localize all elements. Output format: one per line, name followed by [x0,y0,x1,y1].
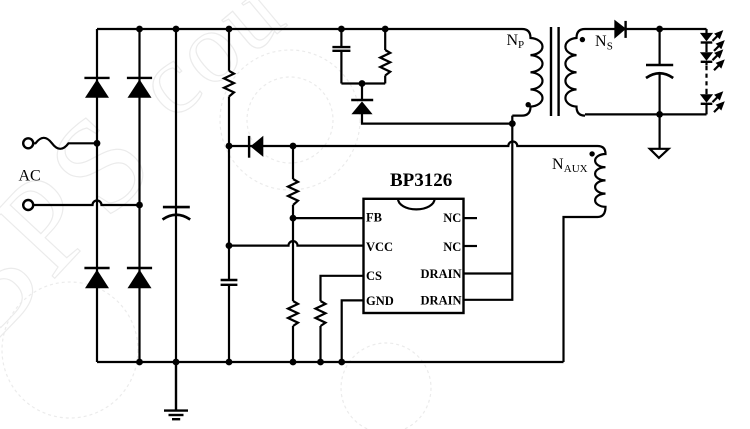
node top rail / cap leg [173,26,180,33]
node drain / snubber [509,120,516,127]
resistor R1 startup [224,71,234,97]
svg-text:NC: NC [443,240,461,254]
resistor R2 FB upper [288,179,298,205]
diode D5 VCC blocking [249,136,263,158]
filter cap leg wire [175,29,177,362]
snubber diode wire [361,84,363,100]
svg-text:GND: GND [366,294,394,308]
node snubber RC junction [359,80,366,87]
node output cap top [656,26,663,33]
node aux line / startup leg [226,143,233,150]
resistor R3 FB lower [288,301,298,326]
AC neutral wire with hop over leg1 [33,201,140,206]
ground arrow output [650,149,669,158]
svg-text:AUX: AUX [564,163,588,175]
bottom rail node VCC cap [226,359,233,366]
capacitor C1 bulk filter [163,207,191,219]
LED2 [700,49,725,70]
svg-text:N: N [552,156,564,173]
node top rail / startup leg [226,26,233,33]
svg-text:cou: cou [115,0,306,139]
transformer core line 1 [550,27,552,116]
aux supply wire (diode line) [229,142,598,146]
bridge leg1 wire [96,29,98,362]
node output cap bottom [656,111,663,118]
output ground stem wire [658,114,660,148]
IC notch [398,199,435,210]
diode D1 bridge top-left [84,78,109,98]
bottom rail node cap leg [173,359,180,366]
IC U1 BP3126 body [364,199,464,313]
DRAIN pin wire 2 [464,274,513,300]
watermark [0,0,431,429]
CS resistor lower wire [319,326,321,362]
svg-text:BP3126: BP3126 [390,170,452,191]
primary winding NP [512,29,542,116]
bottom rail node FB divider [290,359,297,366]
capacitor C3 snubber [332,47,350,51]
svg-text:DRAIN: DRAIN [421,294,462,308]
DRAIN pin wire 1 [464,272,513,274]
diode D4 bridge bottom-right [127,268,152,288]
LED string right leg wire [705,29,707,33]
AC live wire with fuse F1 [33,138,97,149]
capacitor C2 VCC [221,280,238,285]
bottom rail node CS resistor [317,359,324,366]
node AC neutral / bridge [136,202,143,209]
phase dot secondary [580,37,585,42]
bottom rail node GND leg [338,359,345,366]
svg-text:S: S [607,41,613,53]
bottom rail wire [97,361,564,363]
FB divider leg wire [292,146,294,362]
diode D6 snubber clamp [351,100,373,114]
bridge leg2 wire [138,29,140,362]
svg-text:AC: AC [19,168,41,185]
phase dot aux [589,151,594,156]
phase dot primary [526,102,531,107]
ground symbol primary [164,362,188,419]
svg-text:P: P [518,39,524,51]
svg-text:NC: NC [443,211,461,225]
snubber diode to drain wire [362,114,512,124]
svg-text:CS: CS [366,269,382,283]
svg-text:N: N [595,33,607,50]
node top rail / snubber cap [338,26,345,33]
node aux line / FB divider [290,143,297,150]
svg-text:DRAIN: DRAIN [421,267,462,281]
node top rail / leg2 [136,26,143,33]
AC terminal top [23,138,33,148]
capacitor C4 output [646,65,673,78]
LED3 [700,91,725,112]
svg-text:VCC: VCC [366,240,393,254]
AC terminal bottom [23,200,33,210]
resistor R5 snubber [380,50,390,76]
secondary bottom wire [585,113,707,115]
node AC live / bridge [94,140,101,147]
node FB pin [290,215,297,222]
resistor R4 CS sense [316,301,326,326]
svg-text:FB: FB [366,211,382,225]
secondary top wire [585,28,707,30]
svg-text:BPS: BPS [0,82,184,372]
LED1 [700,30,725,51]
GND pin wire [342,300,364,362]
NC pin stub 1 [464,217,478,219]
snubber resistor leg wire [384,29,386,84]
output cap leg wire [658,29,660,65]
svg-text:N: N [507,32,519,49]
diode D3 bridge bottom-left [84,268,109,288]
diode D7 output rectifier [615,21,626,38]
startup/VCC leg wire [228,29,230,362]
snubber cap leg wire [340,29,342,84]
FB pin wire [293,217,364,219]
bottom rail node leg2 [136,359,143,366]
top rail wire [97,28,522,30]
LED interconnect wires [705,43,707,53]
NC pin stub 2 [464,245,478,247]
transformer core line 2 [557,27,559,116]
drain to primary vertical wire [511,116,513,274]
CS pin wire [321,276,364,301]
snubber bottom joining wire [341,82,385,84]
aux winding NAUX [564,146,606,362]
node VCC [226,242,233,249]
diode D2 bridge top-right [127,78,152,98]
VCC wire with hop over FB leg [229,241,364,246]
node top rail / snubber resistor [382,26,389,33]
secondary winding NS [565,29,585,116]
